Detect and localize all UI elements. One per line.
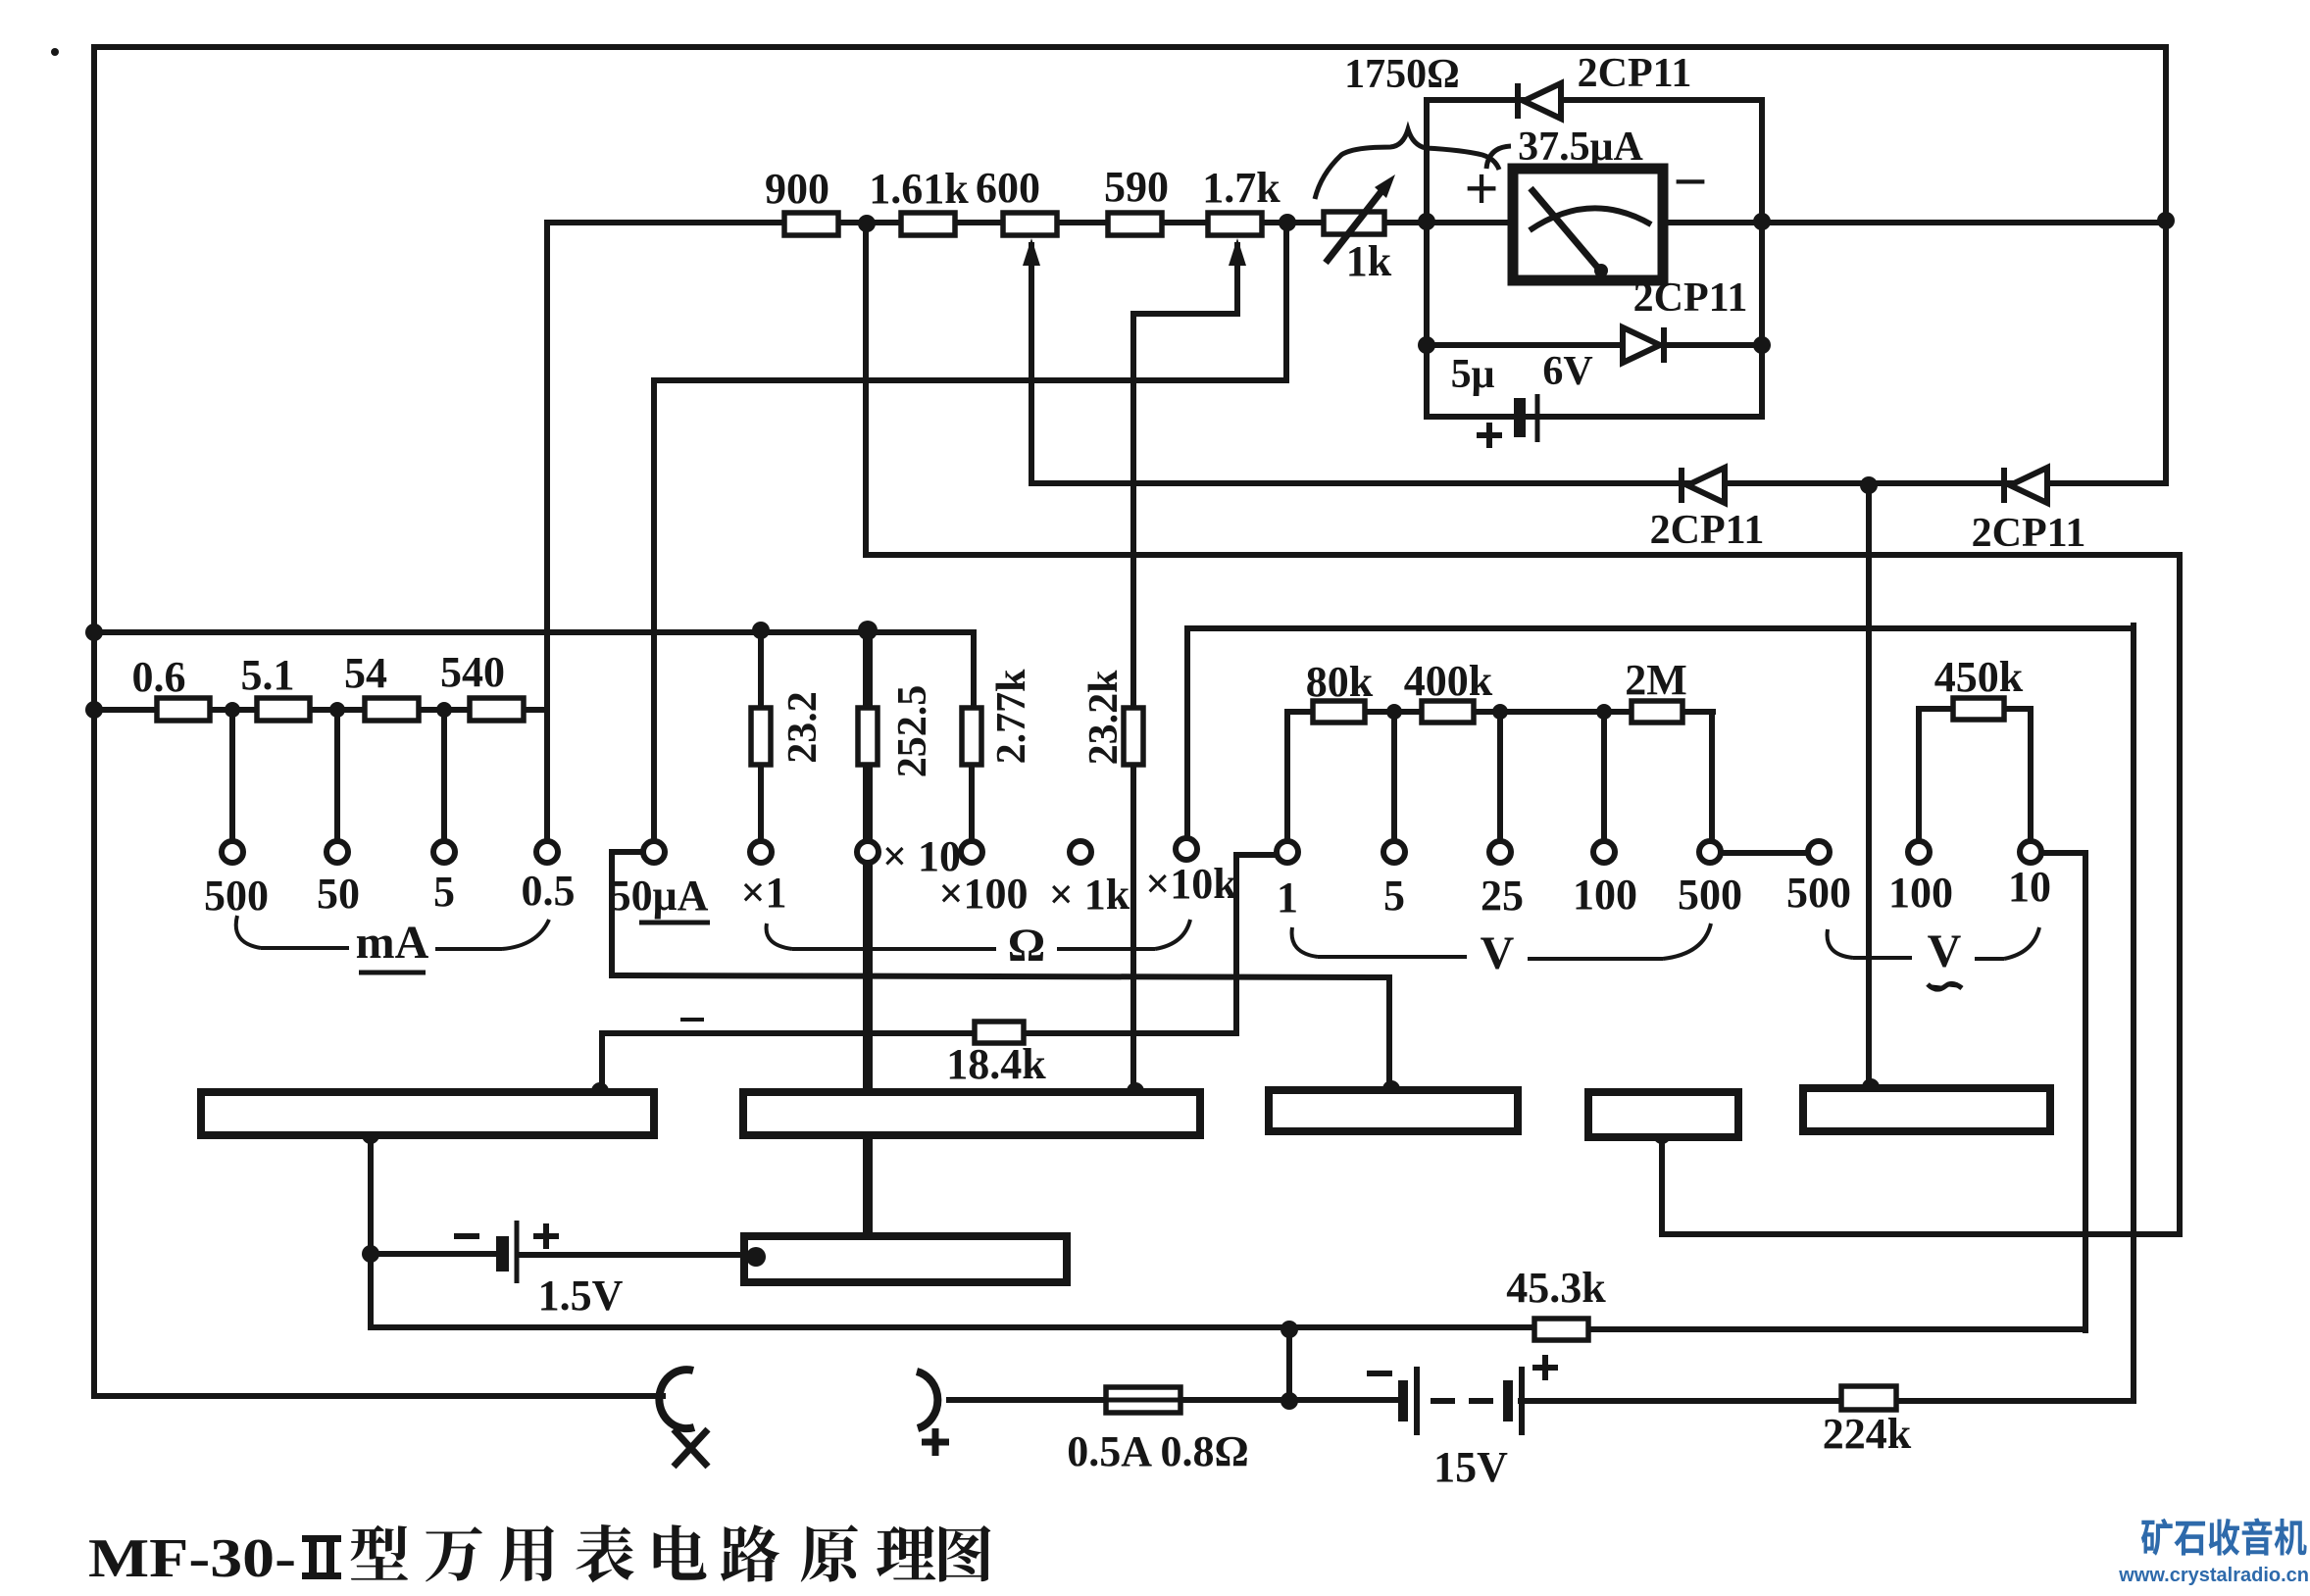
terminal 50uA bbox=[643, 841, 665, 863]
caption roman numeral II bbox=[302, 1535, 341, 1579]
jack common arc bbox=[659, 1370, 694, 1428]
wire vertical x1312 to main row bbox=[1283, 224, 1289, 380]
switch bar V left bbox=[1269, 1090, 1518, 1131]
junction shunt 54/540 bbox=[436, 702, 452, 718]
resistor 80k bbox=[1313, 701, 1365, 723]
glyph 收 bbox=[2209, 1519, 2240, 1556]
terminal 500V dc bbox=[1699, 841, 1721, 863]
junction bridge right top bbox=[1753, 213, 1771, 230]
terminal x10 bbox=[857, 841, 879, 863]
svg-text:2CP11: 2CP11 bbox=[1633, 275, 1748, 321]
svg-text:590: 590 bbox=[1104, 163, 1169, 211]
glyph 表 bbox=[576, 1524, 633, 1582]
resistor 540 bbox=[470, 698, 524, 721]
battery 6V plus sign bbox=[1477, 423, 1502, 448]
junction left rail x885 bbox=[858, 621, 878, 640]
brace V group bbox=[1292, 923, 1711, 959]
terminal 500mA bbox=[222, 841, 243, 863]
glyph 矿 bbox=[2141, 1519, 2173, 1556]
wire 1.5V battery leads bbox=[371, 1254, 747, 1255]
wire y388 link bbox=[655, 377, 1286, 383]
junction battery 1.5V tap bbox=[362, 1245, 379, 1263]
resistor 54 bbox=[365, 698, 419, 721]
battery 15V cell2 plates bbox=[1503, 1367, 1522, 1435]
GROUP BRACES bbox=[236, 916, 2039, 959]
wire bottom row left segment bbox=[94, 1393, 663, 1399]
wire V-divider top y726 bbox=[1287, 709, 1713, 715]
leader hook 37.5uA bbox=[1486, 146, 1511, 169]
diode 2CP11 rail right bbox=[2004, 468, 2047, 503]
wire bottom row jack-to-fuse segment bbox=[949, 1397, 1399, 1403]
svg-text:+: + bbox=[1464, 156, 1498, 223]
glyph 石 bbox=[2174, 1521, 2205, 1556]
resistor 450k bbox=[1953, 698, 2004, 720]
junction 45.3k row x1315 bbox=[1281, 1321, 1298, 1338]
wire 1.7k wiper path bbox=[1133, 245, 1237, 1090]
junction V-chain 400k node bbox=[1492, 704, 1508, 720]
battery 1.5V plates bbox=[496, 1221, 517, 1283]
svg-text:Ω: Ω bbox=[1008, 920, 1045, 972]
svg-text:0.5: 0.5 bbox=[522, 867, 576, 915]
terminal x100 bbox=[961, 841, 982, 863]
glyph 电 bbox=[654, 1524, 707, 1579]
wire bottom row 224k-to-corner segment bbox=[1896, 1398, 2134, 1404]
svg-text:× 1k: × 1k bbox=[1049, 871, 1130, 919]
battery 15V minus sign bbox=[1367, 1371, 1392, 1376]
diode 2CP11 bridge top bbox=[1518, 83, 1561, 119]
wire stub 1V bbox=[1284, 712, 1290, 841]
resistor 5.1 bbox=[257, 698, 310, 721]
wire riser to terminal 1V bbox=[1236, 855, 1277, 1032]
junction shunt 0.6/5.1 bbox=[225, 702, 240, 718]
brace mA group bbox=[236, 916, 549, 949]
junction left border / left rail bbox=[85, 623, 103, 641]
svg-text:2.77k: 2.77k bbox=[989, 669, 1034, 765]
battery 15V dashed link bbox=[1431, 1398, 1493, 1404]
junction V-chain 2M node bbox=[1596, 704, 1612, 720]
svg-text:50μA: 50μA bbox=[610, 872, 709, 920]
meter bridge frame bbox=[1427, 100, 1762, 417]
junction bar4 bottom bbox=[1653, 1126, 1671, 1144]
curly brace 1750 bbox=[1315, 129, 1499, 199]
glyph 机 bbox=[2275, 1519, 2307, 1556]
wire 500-500 link bbox=[1721, 850, 1808, 856]
svg-text:100: 100 bbox=[1888, 869, 1953, 917]
resistor 2M bbox=[1632, 701, 1682, 723]
svg-text:×1: ×1 bbox=[740, 869, 786, 917]
wire shunt row y724 bbox=[94, 707, 547, 713]
resistor 2.77k vertical bbox=[962, 708, 981, 765]
junction bar1 bottom bbox=[362, 1126, 379, 1144]
wire vertical x378 bar1-to-battery bbox=[368, 1135, 374, 1327]
resistor 600 bbox=[1003, 213, 1057, 235]
battery 1.5V minus sign bbox=[454, 1233, 479, 1239]
wire bottom row battery-to-224k segment bbox=[1521, 1398, 1841, 1404]
svg-text:252.5: 252.5 bbox=[890, 685, 935, 778]
glyph 原 bbox=[801, 1524, 858, 1581]
junction bridge left bottom bbox=[1418, 336, 1435, 354]
wire line B y1054 (18.4k line) bbox=[602, 1030, 1236, 1036]
junction bridge right bottom bbox=[1753, 336, 1771, 354]
junction left rail x776 bbox=[752, 622, 770, 639]
svg-text:mA: mA bbox=[356, 917, 429, 969]
resistor 0.6 bbox=[157, 698, 210, 721]
stray dot top left bbox=[51, 48, 59, 56]
switch bar battery strip bbox=[744, 1236, 1067, 1282]
resistor 252.5 vertical bbox=[858, 708, 878, 765]
svg-text:5.1: 5.1 bbox=[241, 651, 295, 699]
wire stub 0.5mA bbox=[544, 710, 550, 841]
resistor 23.2k vertical bbox=[1124, 708, 1143, 765]
svg-text:23.2: 23.2 bbox=[780, 691, 826, 764]
wire vertical x1906 to bar5 bbox=[1866, 485, 1872, 1086]
svg-text:V: V bbox=[1928, 925, 1962, 977]
ARROWS bbox=[1023, 175, 1395, 266]
svg-text:5μ: 5μ bbox=[1451, 352, 1495, 397]
junction shunt 5.1/54 bbox=[329, 702, 345, 718]
METER bbox=[1513, 169, 1663, 280]
wire 450k loop bbox=[1919, 709, 2031, 841]
wire 50uA left jog bbox=[612, 852, 643, 975]
resistor 1.61k bbox=[901, 213, 955, 235]
terminal 1V bbox=[1277, 841, 1298, 863]
junction rail-2 x1906 bbox=[1860, 476, 1878, 494]
wire drop to bar3 bbox=[1386, 977, 1392, 1086]
fuse 0.5A bbox=[1106, 1387, 1180, 1413]
svg-text:1k: 1k bbox=[1346, 237, 1392, 285]
tilde under V ac bbox=[1928, 983, 1962, 989]
terminal x1k bbox=[1070, 841, 1091, 863]
svg-text:600: 600 bbox=[976, 164, 1040, 212]
jack plus arc bbox=[917, 1372, 937, 1428]
meter needle bbox=[1531, 188, 1601, 272]
terminal 500V ac bbox=[1808, 841, 1830, 863]
terminal x10k bbox=[1176, 838, 1197, 860]
svg-text:1750Ω: 1750Ω bbox=[1344, 52, 1460, 97]
svg-text:×100: ×100 bbox=[938, 870, 1028, 918]
switch bar V mid bbox=[1588, 1092, 1738, 1137]
arrow 1k diagonal head bbox=[1375, 175, 1395, 198]
wire vertical x558 (0.5mA feed) bbox=[544, 223, 550, 710]
meter pivot bbox=[1594, 264, 1608, 277]
resistor 18.4k bbox=[975, 1022, 1024, 1043]
terminal 100V bbox=[1593, 841, 1615, 863]
wire 600 wiper shaft bbox=[1029, 245, 1034, 483]
resistor 1k variable bbox=[1324, 212, 1384, 234]
junction 900/1.61k node bbox=[858, 215, 876, 232]
terminal 25V bbox=[1489, 841, 1511, 863]
wire rail-2 y494 (diode rail) bbox=[1031, 480, 2166, 486]
meter 37.5uA body bbox=[1513, 169, 1663, 280]
wire vertical x883 to 1.61k junction bbox=[863, 224, 869, 555]
svg-text:0.5A 0.8Ω: 0.5A 0.8Ω bbox=[1067, 1427, 1249, 1475]
wire stub 500V bbox=[1709, 712, 1715, 841]
svg-text:50: 50 bbox=[317, 870, 360, 918]
svg-text:100: 100 bbox=[1573, 871, 1637, 919]
SWITCH BARS bbox=[201, 1088, 2050, 1282]
svg-text:15V: 15V bbox=[1433, 1443, 1508, 1491]
jack common X symbol bbox=[674, 1429, 708, 1467]
arrow wiper 600 bbox=[1023, 238, 1040, 266]
glyph 型 bbox=[351, 1525, 409, 1580]
svg-text:×10k: ×10k bbox=[1145, 860, 1237, 908]
svg-text:MF-30-: MF-30- bbox=[88, 1528, 296, 1589]
wire line B vertical to bar1 bbox=[599, 1034, 605, 1088]
svg-text:450k: 450k bbox=[1934, 653, 2024, 701]
svg-text:5: 5 bbox=[1383, 872, 1405, 920]
svg-text:500: 500 bbox=[204, 872, 269, 920]
jack plus sign bbox=[922, 1428, 949, 1456]
wire stub 100V bbox=[1601, 712, 1607, 841]
svg-text:400k: 400k bbox=[1404, 657, 1493, 705]
svg-text:500: 500 bbox=[1786, 869, 1851, 917]
wire top border bbox=[94, 44, 2166, 50]
svg-text:18.4k: 18.4k bbox=[946, 1040, 1046, 1088]
wire drop to x100 resistor bbox=[972, 632, 974, 841]
terminal 5V bbox=[1383, 841, 1405, 863]
svg-text:www.crystalradio.cn: www.crystalradio.cn bbox=[2118, 1565, 2309, 1586]
wire left border bbox=[91, 47, 97, 1396]
resistor 23.2 vertical bbox=[751, 708, 771, 765]
brace ohm group bbox=[767, 920, 1190, 949]
wire 45.3k row y1356 bbox=[372, 1327, 2085, 1329]
svg-text:900: 900 bbox=[765, 165, 829, 213]
wire line A y996 bbox=[612, 975, 1387, 977]
svg-text:0.6: 0.6 bbox=[132, 653, 186, 701]
wire right rail y639 bbox=[1187, 625, 2134, 631]
junction main row right bbox=[2157, 212, 2175, 229]
junction bridge left top bbox=[1418, 213, 1435, 230]
resistor 45.3k bbox=[1534, 1319, 1588, 1340]
arrow wiper 1.7k bbox=[1229, 238, 1246, 266]
TERMINAL CIRCLES bbox=[222, 838, 2041, 863]
wire main meter row y226 bbox=[547, 220, 2166, 225]
svg-text:54: 54 bbox=[344, 649, 387, 697]
svg-text:80k: 80k bbox=[1306, 658, 1374, 706]
svg-text:224k: 224k bbox=[1823, 1410, 1912, 1458]
junction 1.7k/1k node bbox=[1279, 214, 1296, 231]
svg-text:500: 500 bbox=[1678, 871, 1742, 919]
svg-text:45.3k: 45.3k bbox=[1506, 1264, 1606, 1312]
junction left border / shunt row bbox=[85, 701, 103, 719]
svg-text:2CP11: 2CP11 bbox=[1578, 51, 1692, 96]
glyph 图 bbox=[939, 1525, 990, 1581]
svg-text:1: 1 bbox=[1277, 873, 1298, 922]
junction bar3 top bbox=[1382, 1080, 1400, 1098]
wire rail-3 y566 bbox=[866, 552, 2180, 558]
arrow 1k diagonal shaft bbox=[1326, 186, 1385, 263]
svg-text:−: − bbox=[1673, 149, 1707, 216]
resistor 590 bbox=[1108, 213, 1162, 235]
wire drop to x1 resistor bbox=[758, 632, 764, 841]
svg-text:1.61k: 1.61k bbox=[869, 165, 969, 213]
glyph 万 bbox=[426, 1526, 482, 1581]
meter scale arc bbox=[1530, 208, 1651, 230]
wire right drop x2223 bbox=[2177, 555, 2183, 1234]
junction bar5 top bbox=[1862, 1078, 1880, 1096]
junction strip top T bbox=[862, 1231, 874, 1243]
switch bar ohm bbox=[743, 1092, 1200, 1135]
svg-text:1.7k: 1.7k bbox=[1202, 164, 1281, 212]
resistor 400k bbox=[1422, 701, 1474, 723]
battery 1.5V plus sign bbox=[533, 1223, 559, 1249]
BATTERIES bbox=[454, 394, 1558, 1435]
JACKS bbox=[659, 1370, 937, 1428]
terminal 5mA bbox=[433, 841, 455, 863]
terminal 0.5mA bbox=[536, 841, 558, 863]
resistor 224k bbox=[1841, 1386, 1896, 1410]
svg-text:2CP11: 2CP11 bbox=[1972, 511, 2086, 556]
terminal x1 bbox=[750, 841, 772, 863]
svg-text:1.5V: 1.5V bbox=[538, 1272, 624, 1320]
wire ohm common thick vertical bbox=[863, 628, 873, 1236]
terminal 100V ac bbox=[1908, 841, 1930, 863]
DIODES bbox=[1518, 83, 2047, 503]
brace Vac group bbox=[1828, 927, 2039, 959]
small dash above 18.4k line bbox=[680, 1018, 704, 1022]
diode 2CP11 rail left bbox=[1682, 468, 1725, 503]
underline 50uA bbox=[639, 921, 710, 925]
svg-text:5: 5 bbox=[433, 868, 455, 916]
battery strip left dot redraw bbox=[746, 1247, 766, 1267]
battery 6V plates bbox=[1514, 394, 1537, 442]
switch bar V right bbox=[1803, 1088, 2050, 1131]
svg-text:540: 540 bbox=[440, 648, 505, 696]
wire right border vertical x2209 bbox=[2163, 47, 2169, 483]
terminal 50mA bbox=[326, 841, 348, 863]
wire bar4 riser bbox=[1659, 1135, 1665, 1234]
junction battery strip left bbox=[746, 1247, 766, 1267]
svg-text:6V: 6V bbox=[1542, 349, 1592, 394]
wire drop to x10k terminal bbox=[1184, 628, 1190, 838]
wire stub 500mA bbox=[229, 710, 235, 841]
junction bar2 top bbox=[1127, 1082, 1144, 1100]
svg-text:2CP11: 2CP11 bbox=[1650, 508, 1765, 553]
resistor 900 bbox=[784, 213, 838, 235]
battery 15V plus sign bbox=[1532, 1355, 1558, 1380]
battery 15V cell1 plates bbox=[1398, 1367, 1417, 1435]
glyph 理 bbox=[877, 1526, 935, 1580]
diode 2CP11 bridge lower bbox=[1623, 327, 1664, 363]
wire stub 50mA bbox=[334, 710, 340, 841]
glyph 音 bbox=[2242, 1519, 2273, 1556]
wire stub 5mA bbox=[441, 710, 447, 841]
fuse through-line bbox=[1106, 1398, 1180, 1403]
wire stub 25V bbox=[1497, 712, 1503, 841]
wire vertical x1315 bbox=[1286, 1329, 1292, 1401]
svg-text:25: 25 bbox=[1481, 872, 1524, 920]
svg-text:23.2k: 23.2k bbox=[1081, 670, 1127, 766]
junction bar1 top bbox=[591, 1082, 609, 1100]
wire from 10V terminal bbox=[2041, 853, 2085, 1330]
wire stub 5V bbox=[1391, 712, 1397, 841]
RESISTORS bbox=[157, 212, 2004, 1413]
glyph 用 bbox=[500, 1525, 554, 1581]
svg-text:V: V bbox=[1481, 927, 1515, 979]
svg-text:2M: 2M bbox=[1625, 656, 1687, 704]
wire long vertical x2176 bbox=[2131, 625, 2136, 1400]
wire vertical to 50uA terminal bbox=[651, 380, 657, 841]
wire left rail y645 bbox=[94, 629, 974, 635]
svg-text:37.5μA: 37.5μA bbox=[1518, 125, 1643, 170]
junction bottom row x1315 bbox=[1281, 1392, 1298, 1410]
switch bar mA bbox=[201, 1092, 654, 1135]
resistor 1.7k bbox=[1208, 213, 1262, 235]
svg-text:10: 10 bbox=[2008, 863, 2051, 911]
terminal 10V ac bbox=[2020, 841, 2041, 863]
junction V-chain 80k/400k bbox=[1386, 704, 1402, 720]
wire y1259 to bar4 bbox=[1662, 1231, 2180, 1237]
glyph 路 bbox=[721, 1524, 779, 1581]
underline mA bbox=[359, 971, 426, 975]
